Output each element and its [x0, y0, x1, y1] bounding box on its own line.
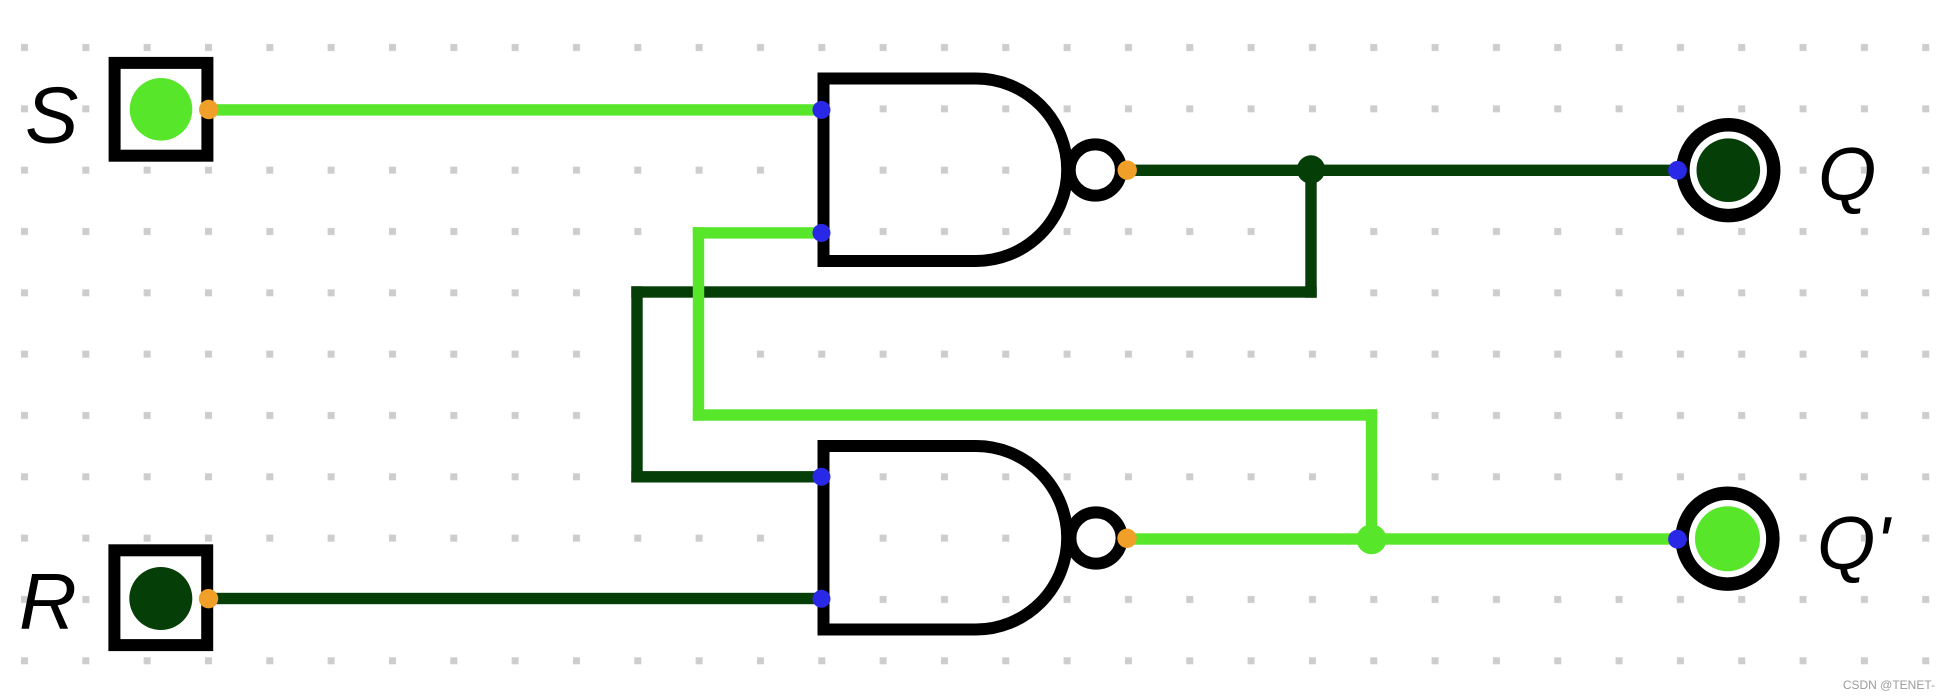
svg-text:S: S: [25, 71, 78, 160]
svg-text:CSDN @TENET-: CSDN @TENET-: [1843, 678, 1935, 692]
svg-text:Q': Q': [1817, 501, 1892, 585]
svg-text:Q: Q: [1818, 132, 1876, 216]
svg-text:R: R: [19, 557, 77, 646]
